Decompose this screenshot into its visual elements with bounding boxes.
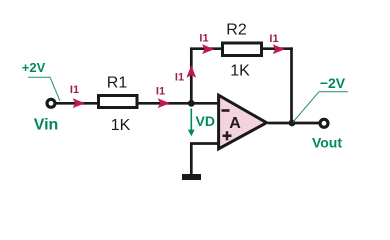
wire: node A up to feedback — [190, 49, 193, 104]
current arrow I1 (out of R2) — [273, 44, 285, 54]
op-amp A — [219, 95, 267, 149]
op-amp minus sign — [222, 109, 230, 112]
svg-text:I1: I1 — [156, 86, 165, 98]
svg-text:I1: I1 — [175, 72, 184, 84]
current arrow I1 (into R2) — [202, 44, 214, 54]
resistor R1 — [99, 96, 138, 108]
node B (output junction) — [289, 120, 296, 127]
callout line for -2V — [293, 92, 348, 122]
wire: down to ground — [190, 144, 193, 176]
svg-text:I1: I1 — [70, 84, 79, 96]
terminal: Vout output — [320, 119, 328, 127]
current arrow I1 (after R1) — [158, 98, 170, 108]
wire: op-amp output — [268, 122, 319, 125]
svg-text:−2V: −2V — [320, 75, 346, 91]
wire: Vin to R1 — [56, 102, 99, 105]
current arrow I1 (up into feedback) — [186, 65, 196, 77]
wire: op-amp non-inverting input — [190, 142, 218, 145]
current arrow I1 (into R1) — [73, 98, 85, 108]
svg-text:Vout: Vout — [312, 135, 342, 151]
resistor R2 — [223, 43, 262, 56]
op-amp plus sign — [223, 135, 232, 138]
wire: R2 to corner — [262, 47, 293, 50]
svg-text:I1: I1 — [269, 33, 278, 45]
wire: node A to op-amp inverting input — [191, 102, 218, 105]
svg-text:VD: VD — [196, 113, 215, 129]
svg-text:R2: R2 — [226, 22, 247, 39]
svg-text:Vin: Vin — [34, 117, 59, 134]
wire: R1 to node A — [137, 102, 192, 105]
svg-text:1K: 1K — [111, 117, 131, 134]
wire: top run to R2 — [190, 47, 222, 50]
callout line for +2V — [28, 77, 60, 101]
wire: feedback down to output node — [290, 47, 293, 123]
svg-text:R1: R1 — [107, 75, 128, 92]
svg-text:1K: 1K — [230, 63, 250, 80]
ground — [182, 174, 201, 180]
node A (junction at inverting input) — [188, 100, 195, 107]
svg-text:I1: I1 — [199, 33, 208, 45]
VD arrow (green, downward) — [190, 109, 192, 131]
svg-text:+2V: +2V — [22, 60, 46, 75]
svg-text:A: A — [229, 115, 241, 132]
terminal: Vin input — [47, 99, 55, 107]
